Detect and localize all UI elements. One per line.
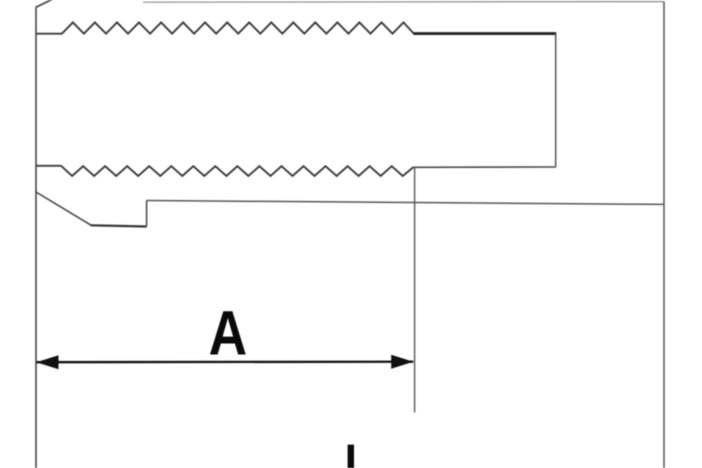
svg-text:A: A bbox=[209, 299, 248, 369]
